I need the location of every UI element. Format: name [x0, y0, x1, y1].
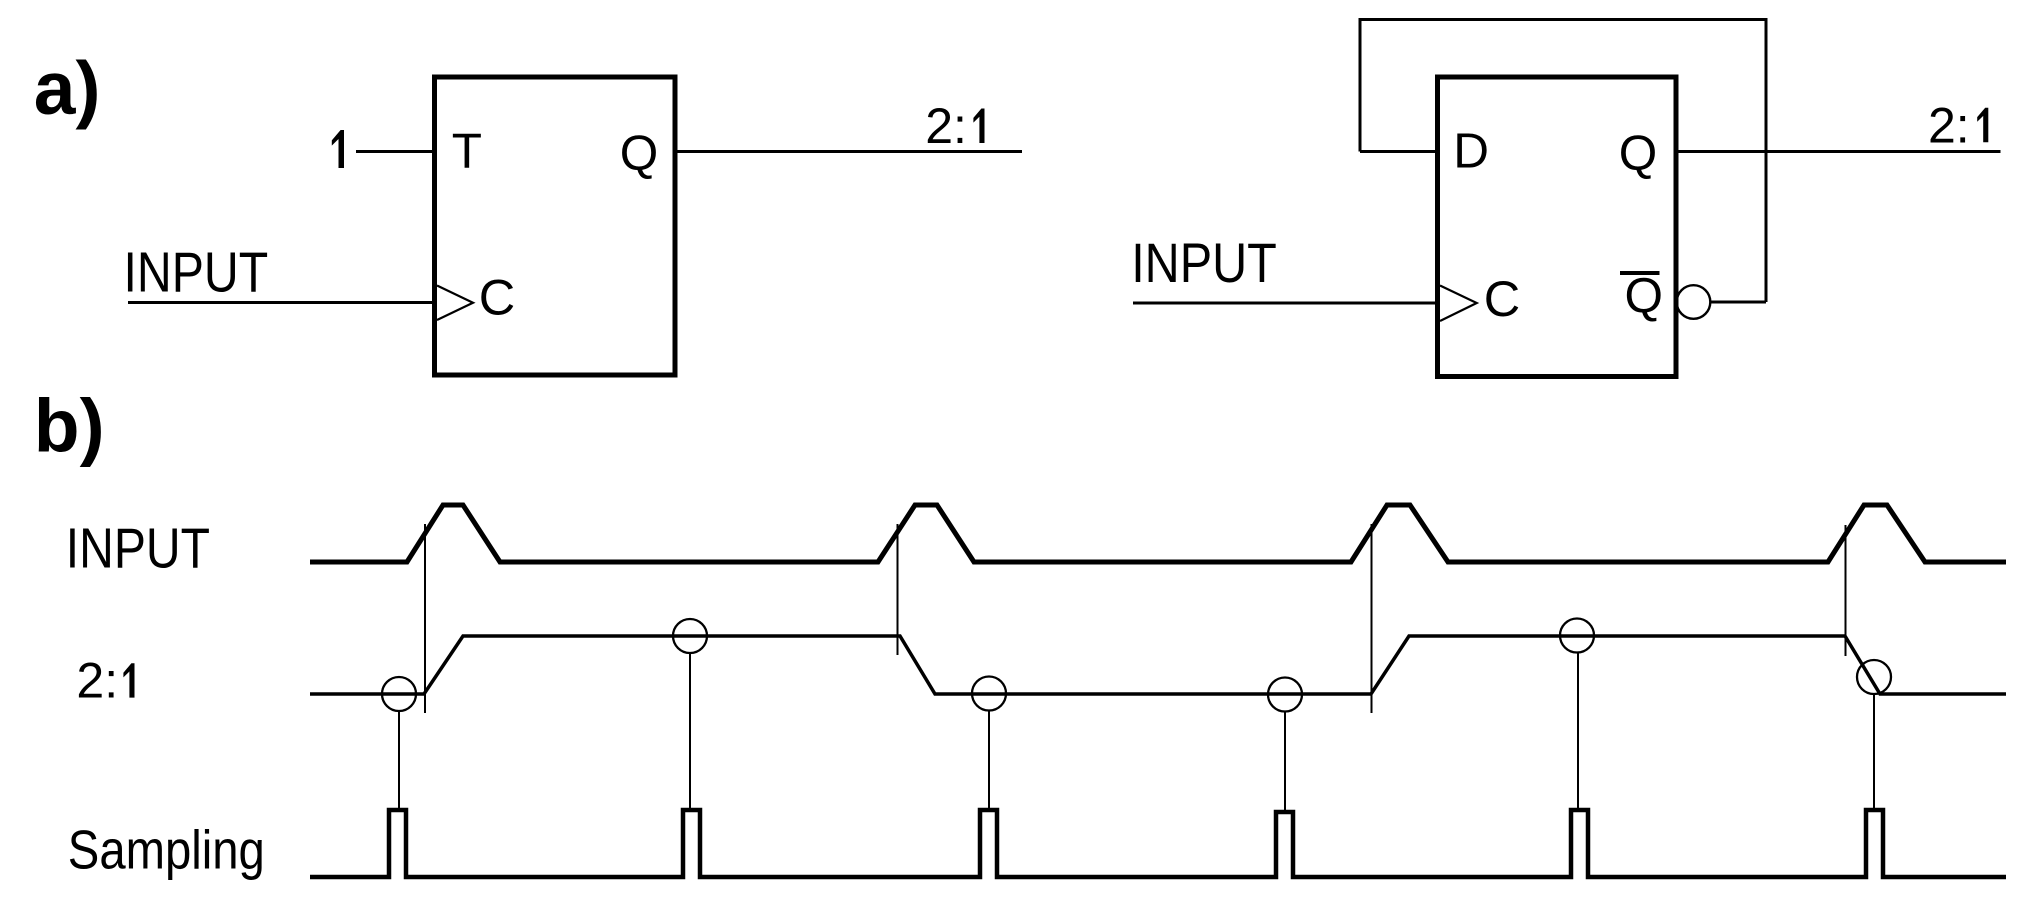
clock edge marker 4: [1845, 525, 1847, 656]
sampling connector 1: [398, 711, 400, 810]
wire feedback left vertical: [1359, 18, 1362, 152]
svg-text:Sampling: Sampling: [68, 820, 265, 881]
sampling connector 3: [988, 711, 990, 811]
wire Q output to node 2:1: [675, 150, 1022, 153]
wire INPUT to clock C of U1: [128, 301, 437, 304]
overbar of Qbar: [1620, 271, 1660, 275]
sample point circle 1: [382, 677, 416, 711]
2:1 waveform trace: [310, 636, 2006, 694]
svg-text:INPUT: INPUT: [124, 241, 269, 304]
wire 1 to T input: [356, 150, 437, 153]
sampling connector 6: [1873, 694, 1875, 810]
svg-text:Q: Q: [1625, 268, 1664, 323]
svg-text:INPUT: INPUT: [1131, 232, 1277, 294]
sample point circle 5: [1560, 619, 1594, 653]
wire feedback to D input: [1360, 150, 1440, 153]
svg-text:a): a): [34, 46, 101, 130]
clock edge marker 2: [897, 524, 899, 655]
sampling connector 4: [1284, 712, 1286, 813]
sample point circle 2: [673, 619, 707, 653]
clock edge marker 3: [1371, 524, 1373, 713]
svg-text:INPUT: INPUT: [66, 517, 210, 580]
D flip-flop U2 box: [1438, 77, 1677, 377]
wire feedback right vertical: [1765, 18, 1768, 302]
svg-text:2:: 2:: [76, 653, 118, 709]
wire bubble to feedback vertical: [1711, 301, 1767, 304]
sampling connector 5: [1577, 653, 1579, 811]
svg-text:C: C: [1484, 270, 1520, 327]
clock edge triangle of U2: [1440, 286, 1477, 322]
node constant 1: [332, 130, 344, 168]
svg-text:C: C: [479, 268, 515, 325]
sample point circle 3: [972, 677, 1006, 711]
clock edge marker 1: [424, 524, 426, 713]
wire feedback top horizontal: [1360, 18, 1766, 21]
inversion bubble on Qbar: [1677, 285, 1711, 319]
svg-text:2:: 2:: [1928, 97, 1970, 153]
wire INPUT to clock C of U2: [1133, 302, 1440, 305]
INPUT waveform trace: [310, 505, 2006, 562]
T flip-flop U1 box: [435, 77, 676, 375]
svg-text:2:: 2:: [925, 98, 967, 154]
svg-text:b): b): [34, 384, 105, 468]
svg-text:T: T: [452, 124, 482, 179]
svg-text:Q: Q: [620, 126, 659, 181]
sample point circle 4: [1268, 678, 1302, 712]
clock edge triangle of U1: [437, 286, 473, 321]
Sampling waveform trace: [310, 810, 2006, 877]
sample point circle 6: [1857, 660, 1891, 694]
svg-text:Q: Q: [1619, 126, 1658, 181]
svg-text:D: D: [1453, 124, 1489, 179]
wire Q output to node 2:1 (b): [1676, 150, 2001, 153]
sampling connector 2: [689, 653, 691, 810]
